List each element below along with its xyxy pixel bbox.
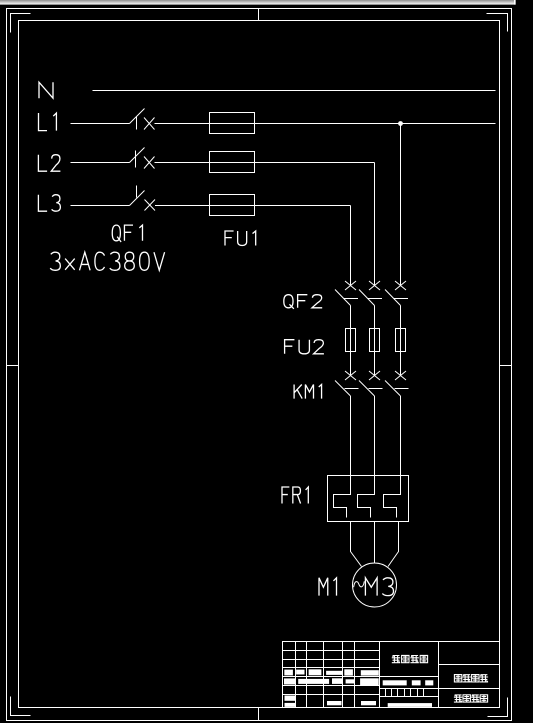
- FR1 heater element 1: [334, 476, 351, 518]
- label L1: [39, 113, 57, 131]
- corner mark bottom-right: [488, 698, 508, 717]
- breaker QF1 pole L3: [130, 186, 156, 211]
- wire drop L2 to QF2: [374, 163, 376, 286]
- fuse FU1 pole L1: [210, 113, 255, 134]
- wire drop L1 to QF2: [400, 124, 402, 286]
- fuse FU1 pole L3: [210, 195, 255, 216]
- title block middle small cells: [386, 689, 424, 697]
- title block placeholder bars row4: [284, 670, 293, 676]
- wire L1 right: [155, 123, 496, 125]
- title block row line under material cell: [283, 676, 439, 678]
- title block: [283, 642, 500, 708]
- motor tilde symbol: [354, 581, 365, 587]
- breaker QF2 pole 3: [385, 281, 408, 306]
- label cailiao biaoji (material mark): [392, 655, 428, 662]
- contactor KM1 pole 3: [385, 371, 409, 396]
- label KM1: [294, 385, 321, 399]
- wire FR1 to motor right: [388, 522, 399, 567]
- wire N bus: [93, 90, 496, 92]
- label QF2: [284, 295, 322, 309]
- title block grid verticals: [296, 642, 439, 708]
- breaker QF2 pole 2: [359, 281, 382, 306]
- label FR1: [282, 487, 308, 504]
- motor M1 circle: [353, 563, 397, 607]
- wire L1 left: [71, 123, 130, 125]
- label L2: [38, 155, 60, 172]
- breaker QF2 pole 1: [335, 281, 358, 306]
- wire drop L3 to QF2: [350, 206, 352, 286]
- label tu yang dai hao (drawing code): [454, 695, 488, 702]
- center mark top: [258, 9, 260, 21]
- center mark left: [7, 365, 19, 367]
- title block right row line: [439, 664, 500, 666]
- thermal relay FR1 box: [328, 476, 409, 522]
- window top bar: [0, 0, 516, 5]
- wire KM1 to FR1 pole1: [350, 396, 352, 476]
- title block middle rows: [380, 689, 500, 697]
- title block outer frame: [283, 642, 500, 708]
- contactor KM1 pole 2: [359, 371, 383, 396]
- wire L3 right: [155, 205, 351, 207]
- wire FR1 to motor middle: [374, 522, 376, 564]
- wire L3 left: [71, 205, 130, 207]
- corner mark top-right: [487, 14, 508, 32]
- junction dot L1 drop: [398, 121, 403, 126]
- wire FR1 to motor left: [351, 522, 362, 567]
- fuse FU2 pole 3: [396, 329, 406, 352]
- label FU1: [225, 231, 256, 245]
- label FU2: [285, 340, 324, 354]
- label N: [39, 82, 53, 98]
- center mark bottom: [258, 708, 260, 721]
- title block grid horizontals left: [283, 651, 380, 695]
- breaker QF1 pole L2: [130, 148, 155, 169]
- fuse FU1 pole L2: [210, 152, 255, 173]
- center mark right: [500, 365, 512, 367]
- label M1: [319, 578, 337, 596]
- FR1 heater element 2: [358, 476, 375, 518]
- wire QF2 to FU2 pole1: [350, 306, 352, 376]
- wire QF2 to FU2 pole2: [374, 306, 376, 376]
- label 3xAC380V: [50, 252, 164, 270]
- breaker QF1 pole L1: [130, 109, 155, 130]
- label zhu dian lu tu (main circuit diagram): [454, 675, 488, 682]
- wire L2 right: [155, 162, 375, 164]
- title block placeholder bars row5: [284, 678, 296, 684]
- wire KM1 to FR1 pole2: [374, 396, 376, 476]
- title block placeholder bars middle: [383, 680, 407, 685]
- label QF1: [112, 225, 142, 242]
- title block placeholder bars bottom-left: [285, 696, 296, 701]
- fuse FU2 pole 1: [346, 329, 356, 352]
- wire QF2 to FU2 pole3: [400, 306, 402, 376]
- label L3: [38, 195, 60, 212]
- FR1 heater element 3: [384, 476, 401, 518]
- wire L2 left: [71, 162, 130, 164]
- corner mark bottom-left: [11, 697, 31, 716]
- wire KM1 to FR1 pole3: [400, 396, 402, 476]
- fuse FU2 pole 2: [370, 329, 380, 352]
- contactor KM1 pole 1: [335, 371, 359, 396]
- corner mark top-left: [11, 14, 31, 33]
- label M3: [365, 578, 393, 596]
